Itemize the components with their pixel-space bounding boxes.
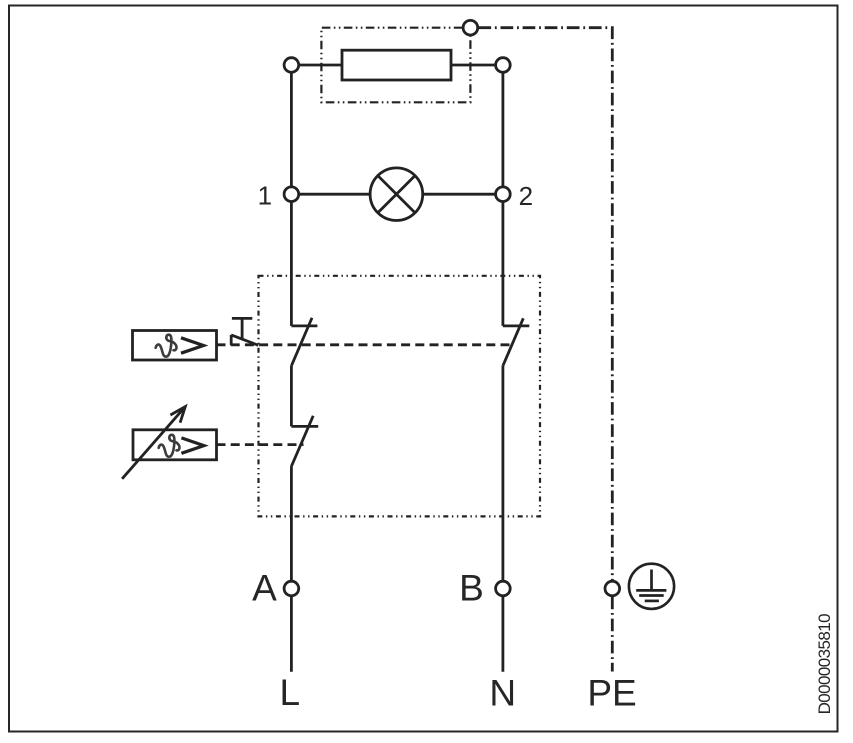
wire PE dash-dot from top node to PE rail xyxy=(478,28,612,581)
node B xyxy=(496,581,511,596)
svg-text:PE: PE xyxy=(587,673,636,714)
node PE-top (body earth node) xyxy=(463,20,478,35)
resistor R (heating element) xyxy=(342,50,451,80)
wire PE dash-dot below PE node xyxy=(611,597,614,672)
svg-text:D0000035810: D0000035810 xyxy=(815,613,834,714)
wire node2 down to switch S2 xyxy=(501,202,504,326)
greater-than symbol F1 xyxy=(181,338,204,353)
svg-text:L: L xyxy=(280,672,301,713)
wire lower contact down to node A xyxy=(290,466,293,581)
svg-text:B: B xyxy=(459,568,484,609)
wire right contact down to node B xyxy=(501,366,504,581)
node PE xyxy=(605,581,620,596)
svg-text:2: 2 xyxy=(519,181,533,211)
switch contact S3 left lower (NC) xyxy=(291,416,318,467)
switch contact S1 left upper (NC) xyxy=(291,318,317,366)
protective earth symbol xyxy=(629,564,674,609)
wire right vertical top-node to node 2 xyxy=(501,72,504,187)
wire between left contacts xyxy=(290,366,293,427)
linkage dashed line F1 to contacts xyxy=(217,343,510,346)
svg-text:A: A xyxy=(252,568,277,609)
wire node1 to lamp xyxy=(299,193,370,196)
node 2 xyxy=(496,187,511,202)
greater-than symbol F2 xyxy=(181,438,204,453)
linkage dashed line F2 to lower contact xyxy=(217,443,304,446)
controller dash-dot-dot box (thermostat unit) xyxy=(259,276,541,517)
enclosure dash-dot-dot box around heating element xyxy=(321,28,470,103)
wire node A down to L xyxy=(290,596,293,672)
theta symbol F1 xyxy=(156,335,177,357)
node left top xyxy=(284,58,299,73)
wire left node to resistor xyxy=(299,64,342,67)
lamp (signal lamp) xyxy=(370,168,423,221)
wire left vertical top-node to node 1 xyxy=(290,72,293,187)
svg-text:1: 1 xyxy=(258,181,272,211)
manual reset button symbol xyxy=(231,318,258,345)
wire lamp to node2 xyxy=(423,193,496,196)
adjustability arrow through F2 xyxy=(122,407,185,479)
svg-text:N: N xyxy=(489,673,516,714)
thermostat F2 (adjustable controller) box xyxy=(133,430,217,460)
node right top xyxy=(496,58,511,73)
thermostat F1 (safety limiter) box xyxy=(133,331,217,361)
wire node B down to N xyxy=(501,596,504,672)
wire resistor to right node xyxy=(451,64,495,67)
node 1 xyxy=(284,187,299,202)
wire node1 down to switch S1 xyxy=(290,202,293,326)
theta symbol F2 xyxy=(159,435,180,457)
node A xyxy=(284,581,299,596)
switch contact S2 right (NC) xyxy=(503,318,529,366)
